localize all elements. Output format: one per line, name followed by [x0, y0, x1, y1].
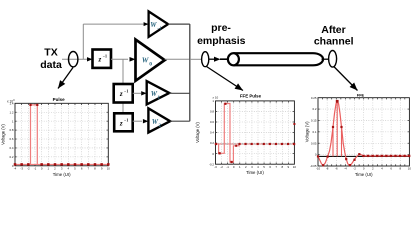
svg-text:Voltage (V): Voltage (V)	[1, 124, 6, 145]
svg-text:-3: -3	[214, 165, 217, 169]
svg-text:Voltage (V): Voltage (V)	[305, 121, 310, 142]
svg-text:10: 10	[107, 166, 111, 170]
svg-text:FFE: FFE	[357, 94, 365, 98]
svg-text:-4: -4	[14, 166, 17, 170]
svg-text:-10: -10	[316, 166, 321, 170]
svg-text:-6: -6	[335, 166, 338, 170]
svg-text:After: After	[321, 24, 346, 36]
svg-text:0.1: 0.1	[312, 130, 316, 134]
svg-text:-4: -4	[344, 166, 347, 170]
svg-text:Voltage (V): Voltage (V)	[195, 122, 200, 143]
svg-text:z: z	[119, 90, 123, 98]
svg-text:Time (UI): Time (UI)	[53, 172, 71, 177]
svg-text:Time (UI): Time (UI)	[355, 172, 373, 177]
svg-text:0.2: 0.2	[312, 107, 316, 111]
svg-text:0.8: 0.8	[9, 128, 13, 132]
svg-text:-1: -1	[226, 165, 229, 169]
svg-text:data: data	[40, 59, 62, 71]
svg-text:0.6: 0.6	[210, 120, 214, 124]
svg-text:0.2: 0.2	[210, 141, 214, 145]
svg-text:emphasis: emphasis	[197, 35, 246, 47]
svg-text:0.4: 0.4	[9, 146, 13, 150]
svg-text:Time (UI): Time (UI)	[246, 170, 264, 175]
svg-text:1.4: 1.4	[9, 101, 13, 105]
svg-text:-8: -8	[326, 166, 329, 170]
svg-text:1.2: 1.2	[9, 110, 13, 114]
svg-text:0: 0	[149, 62, 152, 68]
svg-text:0.4: 0.4	[210, 131, 214, 135]
svg-text:0.25: 0.25	[311, 96, 317, 100]
svg-text:-1: -1	[34, 166, 37, 170]
svg-text:FFE Pulse: FFE Pulse	[240, 94, 262, 99]
svg-text:0.8: 0.8	[210, 110, 214, 114]
svg-text:0.2: 0.2	[9, 155, 13, 159]
svg-text:−1: −1	[124, 118, 128, 123]
svg-text:z: z	[98, 55, 102, 63]
svg-text:-2: -2	[220, 165, 223, 169]
svg-text:−1: −1	[157, 25, 162, 30]
svg-text:0.05: 0.05	[311, 141, 317, 145]
svg-text:-3: -3	[20, 166, 23, 170]
svg-text:z: z	[119, 119, 123, 127]
svg-text:10: 10	[293, 165, 297, 169]
svg-text:10: 10	[408, 166, 412, 170]
svg-text:channel: channel	[314, 35, 354, 47]
svg-text:-2: -2	[27, 166, 30, 170]
svg-text:−1: −1	[124, 88, 128, 93]
svg-text:-2: -2	[353, 166, 356, 170]
svg-text:Pulse: Pulse	[53, 97, 66, 102]
svg-text:−1: −1	[103, 54, 107, 59]
svg-text:TX: TX	[44, 47, 57, 59]
svg-text:0.6: 0.6	[9, 137, 13, 141]
svg-text:0.15: 0.15	[311, 119, 317, 123]
svg-text:pre-: pre-	[211, 22, 231, 34]
